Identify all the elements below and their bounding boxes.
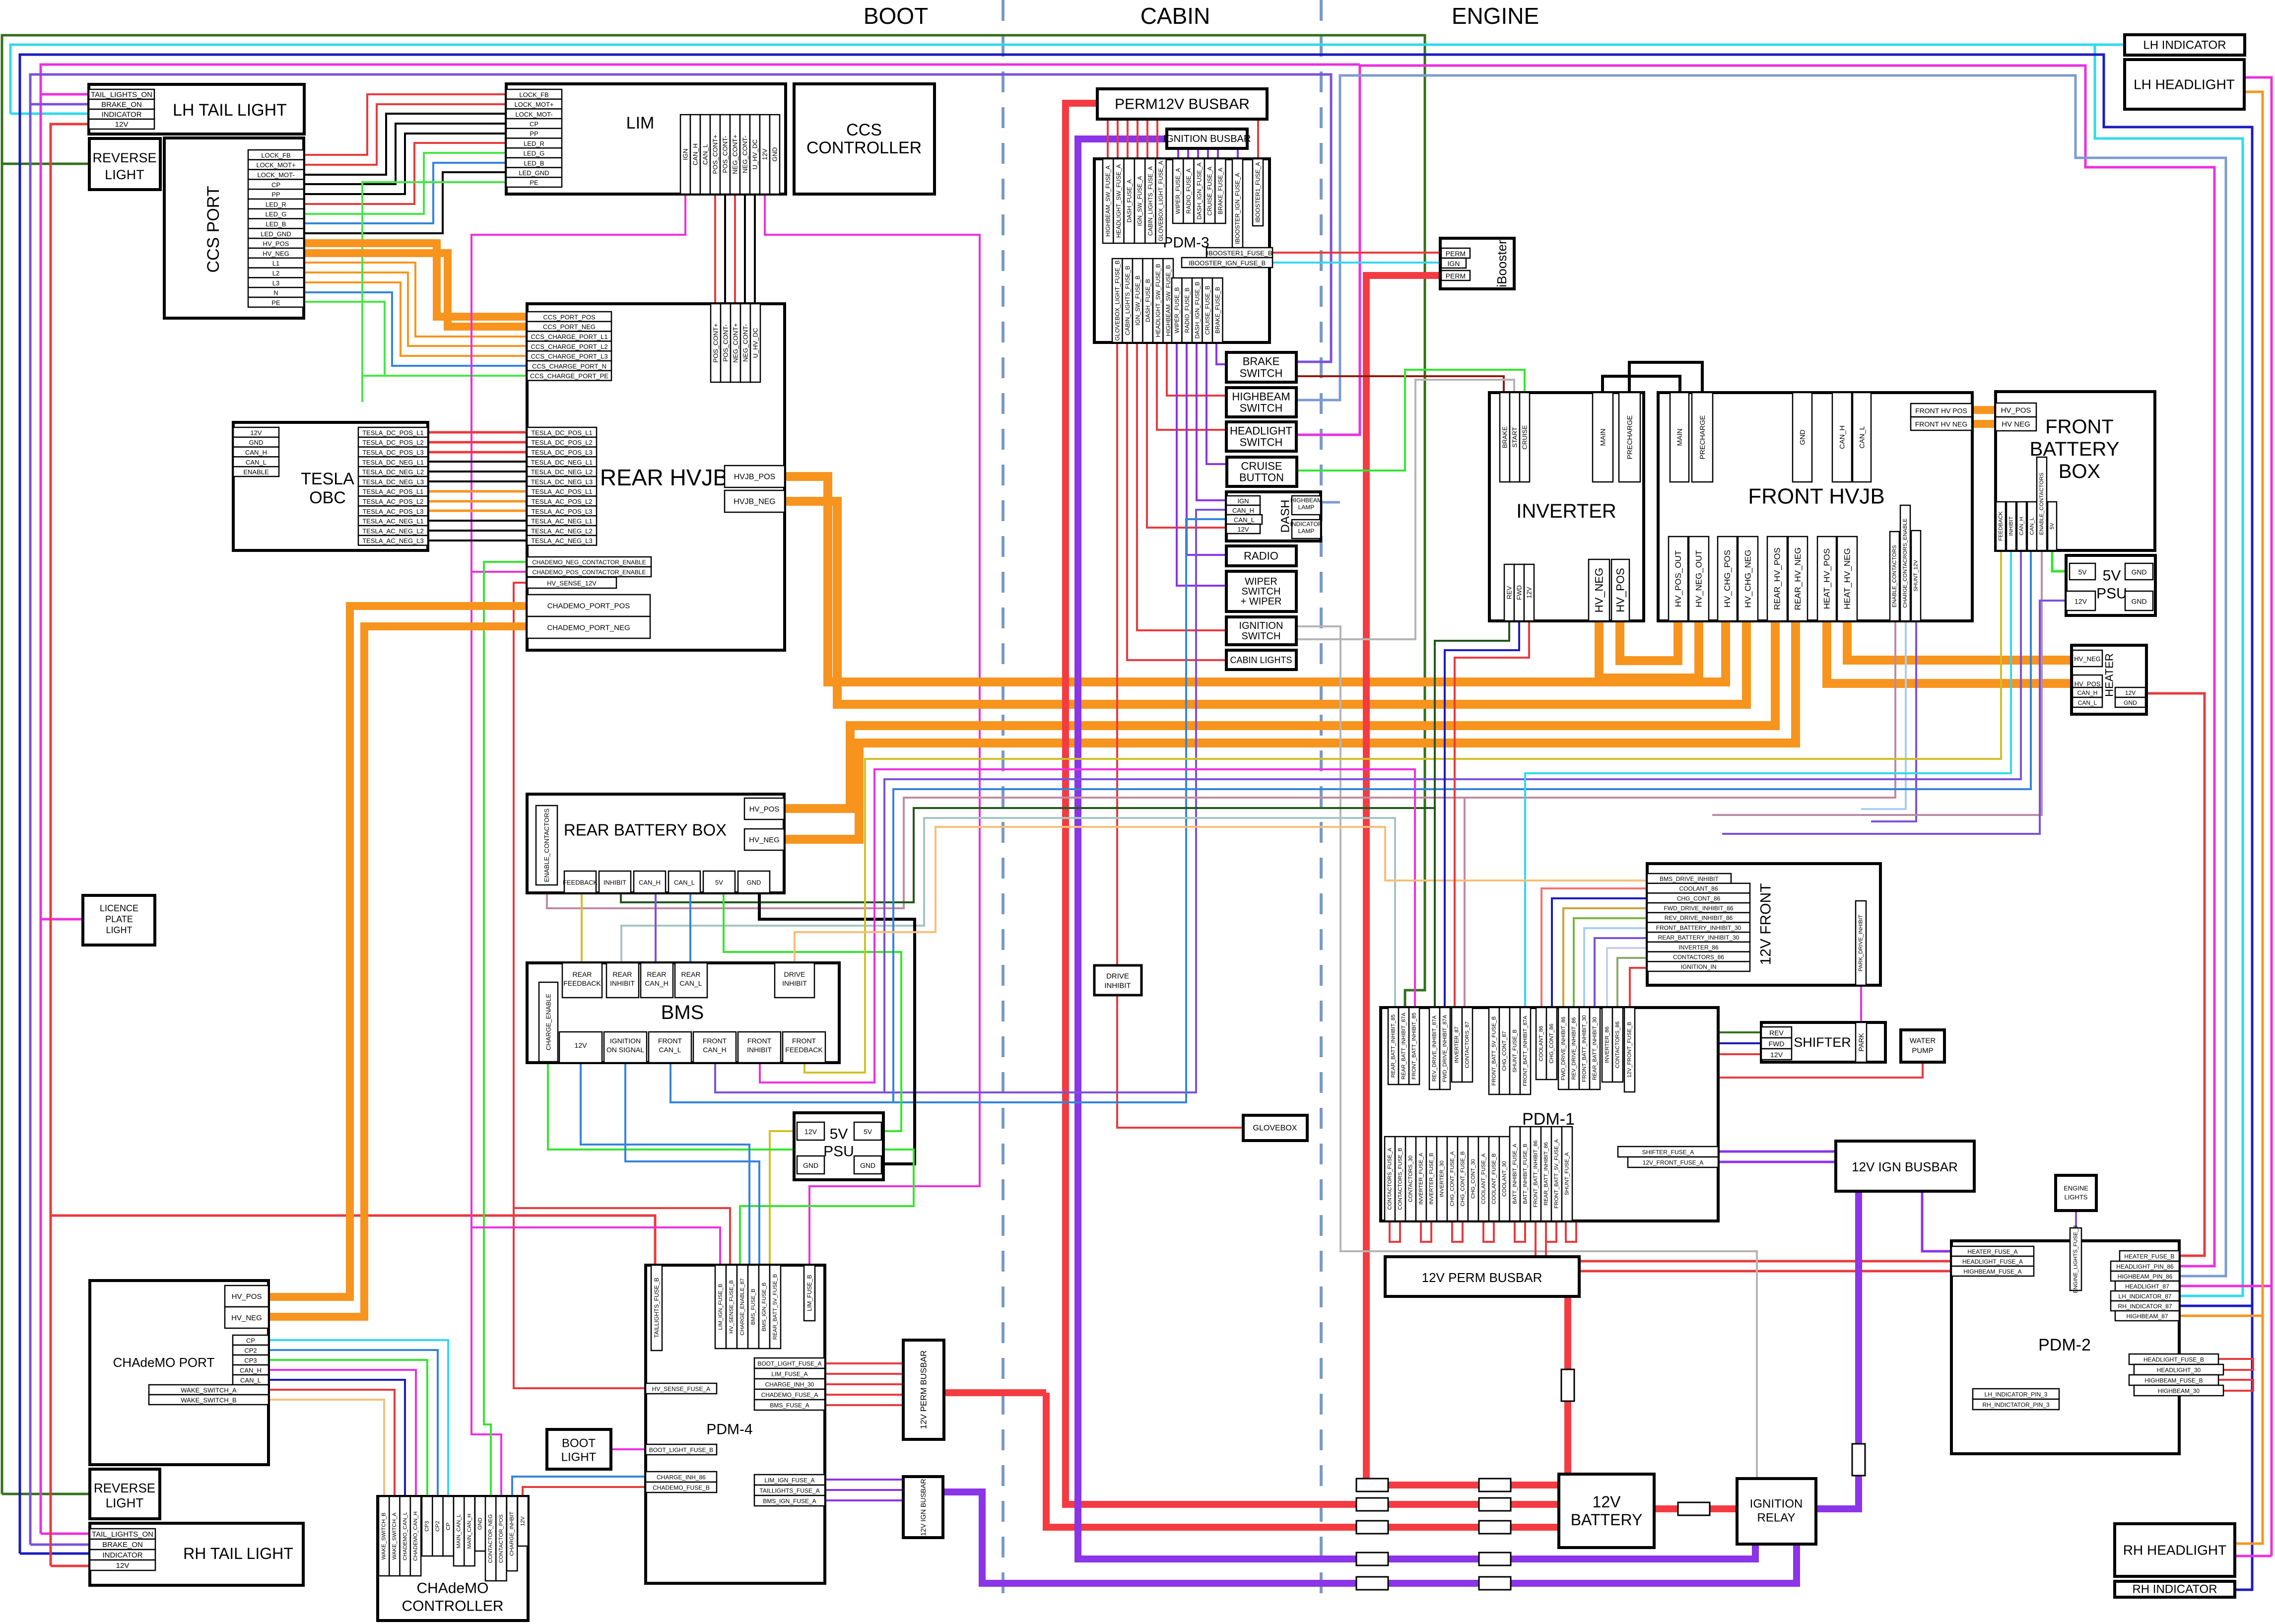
WATER PUMP bbox=[1901, 1030, 1944, 1062]
wire headlight fuse loop red bbox=[2218, 1359, 2253, 1370]
LICENCE PLATE LIGHT bbox=[83, 895, 155, 945]
svg-text:SWITCH: SWITCH bbox=[1242, 631, 1281, 642]
svg-text:FRONT: FRONT bbox=[2045, 416, 2114, 438]
wire inverter REV dark green bbox=[1435, 621, 1509, 1008]
svg-text:BRAKE_FUSE_B: BRAKE_FUSE_B bbox=[1214, 287, 1221, 334]
svg-text:HV_POS: HV_POS bbox=[1614, 568, 1627, 612]
svg-text:INDICATOR: INDICATOR bbox=[102, 1551, 142, 1559]
svg-text:FRONT: FRONT bbox=[703, 1037, 727, 1045]
svg-text:HEATER_FUSE_B: HEATER_FUSE_B bbox=[2124, 1253, 2174, 1260]
svg-text:CCS_PORT_NEG: CCS_PORT_NEG bbox=[543, 323, 596, 331]
svg-text:12V: 12V bbox=[2125, 689, 2136, 696]
svg-text:12V: 12V bbox=[2074, 598, 2087, 606]
wire inverter HV_NEG U orange bbox=[1599, 621, 1699, 678]
svg-text:PP: PP bbox=[271, 191, 280, 199]
svg-text:CCS_CHARGE_PORT_N: CCS_CHARGE_PORT_N bbox=[532, 362, 606, 370]
fuse battery feed 2b bbox=[1479, 1498, 1511, 1511]
wire BMS_DRIVE_INHIBIT peach bbox=[795, 827, 1647, 963]
svg-text:NEG_CONT+: NEG_CONT+ bbox=[732, 323, 739, 363]
svg-text:BOOT: BOOT bbox=[864, 3, 928, 29]
REAR BATTERY BOX bbox=[527, 794, 784, 893]
svg-text:BMS_IGN_FUSE_B: BMS_IGN_FUSE_B bbox=[761, 1283, 767, 1331]
svg-text:HEADLIGHT: HEADLIGHT bbox=[1230, 425, 1292, 437]
svg-text:LOCK_MOT+: LOCK_MOT+ bbox=[514, 101, 553, 108]
svg-text:ENABLE: ENABLE bbox=[243, 469, 269, 476]
wire cruise green to inverter bbox=[1297, 370, 1525, 471]
wire charge inh 30 red bbox=[825, 1383, 903, 1385]
wire CCS_PORT_POS thick orange bbox=[304, 243, 527, 317]
svg-text:LED_GND: LED_GND bbox=[261, 230, 291, 238]
12V FRONT bbox=[1647, 864, 1880, 985]
svg-text:BMS_IGN_FUSE_A: BMS_IGN_FUSE_A bbox=[763, 1498, 816, 1505]
svg-text:NEG_CONT-: NEG_CONT- bbox=[741, 135, 749, 173]
wire perm busbar to PDM-3 fuse 1 bbox=[1117, 119, 1119, 163]
wire IGN_SW_FUSE_B red bbox=[1137, 342, 1226, 630]
svg-text:INVERTER_FUSE_A: INVERTER_FUSE_A bbox=[1418, 1152, 1424, 1205]
wire CRUISE_FUSE_B purple bbox=[1206, 342, 1226, 464]
svg-text:LOCK_FB: LOCK_FB bbox=[261, 151, 290, 159]
svg-text:CHADEMO_PORT_NEG: CHADEMO_PORT_NEG bbox=[547, 624, 630, 632]
wire DASH_IGN_FUSE_B purple bbox=[1197, 342, 1226, 500]
svg-text:LOCK_FB: LOCK_FB bbox=[519, 91, 548, 98]
svg-text:FRONT: FRONT bbox=[747, 1037, 772, 1045]
HEATER bbox=[2072, 645, 2146, 714]
svg-text:TESLA_DC_POS_L2: TESLA_DC_POS_L2 bbox=[531, 439, 593, 446]
svg-text:REV_DRIVE_INHIBIT_86: REV_DRIVE_INHIBIT_86 bbox=[1665, 915, 1733, 922]
svg-text:TESLA_AC_NEG_L3: TESLA_AC_NEG_L3 bbox=[531, 537, 593, 544]
wire inverter FWD navy bbox=[1445, 621, 1519, 1008]
wire rear FEEDBACK yellow bbox=[581, 893, 583, 963]
svg-text:CAN_H: CAN_H bbox=[240, 1367, 262, 1374]
svg-text:INVERTER_86: INVERTER_86 bbox=[1678, 944, 1719, 951]
svg-text:PERM12V BUSBAR: PERM12V BUSBAR bbox=[1115, 96, 1250, 113]
wire ignition switch gray 2 to inverter START bbox=[1296, 380, 1514, 639]
svg-text:INHIBIT: INHIBIT bbox=[1104, 982, 1131, 990]
iBooster bbox=[1440, 238, 1514, 289]
wire highbeam fuse loop red bbox=[2218, 1380, 2253, 1391]
svg-text:CAN_L: CAN_L bbox=[246, 459, 267, 466]
svg-text:LED_G: LED_G bbox=[524, 150, 545, 157]
svg-text:CHG_CONT_86: CHG_CONT_86 bbox=[1677, 895, 1721, 902]
svg-text:5V: 5V bbox=[864, 1128, 872, 1136]
wire FRONT CAN_L blue bbox=[893, 550, 2031, 1102]
wire CCS-LIM 6 bbox=[304, 153, 506, 214]
svg-text:CHADEMO_FUSE_A: CHADEMO_FUSE_A bbox=[761, 1392, 818, 1399]
fuse busbar-battery vertical bbox=[1561, 1369, 1574, 1401]
wire FRONT FEEDBACK yellow bbox=[804, 550, 2001, 1073]
wire LIM PE drop green bbox=[361, 182, 363, 402]
svg-text:CHARGE_INH_86: CHARGE_INH_86 bbox=[657, 1474, 706, 1481]
svg-text:BOOT: BOOT bbox=[562, 1437, 596, 1450]
svg-text:CAN_H: CAN_H bbox=[645, 979, 668, 987]
wire FRONT CAN_H violet bbox=[884, 550, 2021, 1092]
svg-text:REAR: REAR bbox=[573, 970, 592, 978]
separator dashed BOOT/CABIN bbox=[1002, 0, 1004, 1598]
svg-text:BUTTON: BUTTON bbox=[1239, 472, 1284, 484]
CCS PORT bbox=[164, 138, 304, 318]
svg-text:TESLA_DC_NEG_L1: TESLA_DC_NEG_L1 bbox=[362, 459, 424, 466]
wire CHARGE_CONTACTORS_ENABLE lblue drop bbox=[1861, 621, 1906, 809]
svg-text:IBOOSTER_IGN_FUSE_A: IBOOSTER_IGN_FUSE_A bbox=[1234, 173, 1241, 244]
svg-text:BMS_FUSE_A: BMS_FUSE_A bbox=[770, 1402, 809, 1409]
svg-text:HIGHBEAM_87: HIGHBEAM_87 bbox=[2126, 1313, 2168, 1320]
svg-text:REAR_BATT_INHIBIT_85: REAR_BATT_INHIBIT_85 bbox=[1391, 1015, 1397, 1078]
svg-text:RH HEADLIGHT: RH HEADLIGHT bbox=[2123, 1543, 2226, 1558]
12V PERM BUSBAR center bbox=[1385, 1257, 1579, 1296]
svg-text:CAN_L: CAN_L bbox=[702, 144, 709, 165]
svg-text:CONTROLLER: CONTROLLER bbox=[401, 1598, 503, 1615]
svg-text:IGNITION: IGNITION bbox=[610, 1037, 641, 1045]
wire WIPER_FUSE_B purple bbox=[1177, 342, 1226, 586]
svg-text:LED_B: LED_B bbox=[524, 159, 544, 167]
wire shifter fuse A purple bbox=[1718, 1150, 1836, 1153]
svg-text:INVERTER_30: INVERTER_30 bbox=[1439, 1160, 1445, 1197]
wire REV_DRIVE_INHIBIT_86 olive bbox=[1574, 918, 1647, 1008]
svg-text:POS_CONT-: POS_CONT- bbox=[722, 324, 730, 361]
svg-text:IGNITION: IGNITION bbox=[1750, 1497, 1803, 1511]
svg-text:MAIN: MAIN bbox=[1599, 429, 1607, 446]
svg-text:LIM_IGN_FUSE_B: LIM_IGN_FUSE_B bbox=[718, 1284, 724, 1330]
wire front 5V green bbox=[2052, 550, 2070, 571]
wire DASH CAN_H violet bbox=[715, 510, 1226, 1092]
svg-text:CHADEMO_FUSE_B: CHADEMO_FUSE_B bbox=[653, 1485, 710, 1491]
GLOVEBOX bbox=[1243, 1115, 1307, 1141]
svg-text:FEEDBACK: FEEDBACK bbox=[563, 979, 601, 987]
svg-text:GND: GND bbox=[747, 879, 761, 886]
svg-text:CONTACTORS_FUSE_B: CONTACTORS_FUSE_B bbox=[1398, 1148, 1404, 1210]
wire iBooster PERM red bbox=[1272, 252, 1440, 254]
svg-text:CHARGE_CONTACRORS_ENABLE: CHARGE_CONTACRORS_ENABLE bbox=[1902, 518, 1908, 608]
wire shifter 12V red bbox=[1718, 1053, 1761, 1055]
wire CCS-LIM 3 bbox=[304, 124, 506, 184]
wire FRONT HV POS stub orange bbox=[1972, 406, 1996, 414]
wire CCS_CHARGE_PORT_L1 orange bbox=[304, 263, 527, 337]
svg-text:HEAT_HV_POS: HEAT_HV_POS bbox=[1822, 548, 1832, 609]
wire pdm1 bottom fuse loop 0 bbox=[1390, 1221, 1400, 1242]
wire ign busbar to PDM-3 fuse 3 bbox=[1207, 148, 1209, 163]
svg-text:HVJB_NEG: HVJB_NEG bbox=[734, 498, 775, 506]
wire glovebox red bbox=[1120, 1127, 1243, 1129]
wire DASH CAN_L blue bbox=[670, 519, 1226, 1102]
svg-text:IGN_SW_FUSE_A: IGN_SW_FUSE_A bbox=[1137, 176, 1143, 226]
wire U_HV_DC black bbox=[754, 194, 756, 303]
INVERTER bbox=[1489, 393, 1644, 621]
svg-text:REV: REV bbox=[1506, 586, 1513, 599]
wire CHADEMO_NEG_CONTACTOR_ENABLE green bbox=[484, 562, 527, 1496]
5V PSU right bbox=[2066, 555, 2155, 615]
wire CCS-LIM 0 bbox=[304, 94, 506, 155]
fuse battery feed 2a bbox=[1356, 1498, 1388, 1511]
svg-text:HV_POS: HV_POS bbox=[749, 805, 780, 813]
svg-text:LIM_FUSE_A: LIM_FUSE_A bbox=[771, 1371, 807, 1378]
wire INDICATOR cyan into LH tail light bbox=[10, 113, 89, 115]
svg-text:GLOVEBOX_LIGHT_FUSE_B: GLOVEBOX_LIGHT_FUSE_B bbox=[1114, 260, 1121, 340]
wire perm12v feed thick red bbox=[1066, 103, 1559, 1504]
svg-text:IBOOSTER_IGN_FUSE_B: IBOOSTER_IGN_FUSE_B bbox=[1189, 260, 1266, 267]
svg-text:PLATE: PLATE bbox=[105, 914, 133, 924]
svg-text:BATT_INHIBIT_FUSE_B: BATT_INHIBIT_FUSE_B bbox=[1523, 1144, 1529, 1204]
svg-text:12V: 12V bbox=[115, 121, 129, 129]
wire engine lights purple bbox=[2075, 1211, 2077, 1228]
svg-text:GND: GND bbox=[2131, 568, 2146, 576]
svg-text:FWD_DRIVE_INHIBIT_87A: FWD_DRIVE_INHIBIT_87A bbox=[1442, 1015, 1448, 1082]
svg-text:ENABLE_CONTACTORS: ENABLE_CONTACTORS bbox=[543, 809, 550, 882]
svg-text:TAIL_LIGHTS_ON: TAIL_LIGHTS_ON bbox=[92, 1530, 153, 1539]
svg-text:U_HV_DC: U_HV_DC bbox=[751, 139, 759, 170]
svg-text:INHIBIT: INHIBIT bbox=[747, 1046, 772, 1054]
svg-text:PUMP: PUMP bbox=[1912, 1047, 1933, 1055]
wire highbeam fuse A red bbox=[1579, 1270, 1951, 1273]
svg-text:BRAKE_FUSE_A: BRAKE_FUSE_A bbox=[1217, 168, 1224, 214]
svg-text:CONTACTOR_NEG: CONTACTOR_NEG bbox=[488, 1514, 494, 1563]
CABIN LIGHTS bbox=[1226, 650, 1296, 670]
svg-text:HV_SENSE_FUSE_A: HV_SENSE_FUSE_A bbox=[652, 1386, 710, 1393]
svg-text:TESLA_DC_NEG_L2: TESLA_DC_NEG_L2 bbox=[531, 469, 593, 476]
svg-text:SHIFTER_FUSE_A: SHIFTER_FUSE_A bbox=[1642, 1149, 1694, 1156]
svg-text:HV_POS: HV_POS bbox=[232, 1292, 262, 1301]
wire ign busbar to PDM-3 fuse 0 bbox=[1177, 148, 1179, 163]
wire COOLANT_86 salmon bbox=[1541, 888, 1647, 1008]
svg-text:LOCK_MOT-: LOCK_MOT- bbox=[515, 111, 552, 118]
svg-text:COOLANT_86: COOLANT_86 bbox=[1679, 885, 1718, 892]
DRIVE INHIBIT switch bbox=[1094, 965, 1141, 995]
wire HIGHBEAM_SW_FUSE_B red bbox=[1167, 342, 1226, 396]
svg-text:HV_CHG_NEG: HV_CHG_NEG bbox=[1743, 549, 1753, 608]
svg-text:HV_NEG_OUT: HV_NEG_OUT bbox=[1694, 550, 1704, 607]
wire CHAdeMO CAN_L navy bbox=[268, 1380, 405, 1496]
svg-text:DASH_FUSE_A: DASH_FUSE_A bbox=[1126, 180, 1133, 223]
svg-text:INHIBIT: INHIBIT bbox=[603, 879, 626, 886]
wire perm busbar to PDM-3 fuse 5 bbox=[1156, 119, 1158, 163]
wire INVERTER_86 lavender bbox=[1607, 948, 1647, 1008]
wire lim ign fuse A purple bbox=[825, 1479, 903, 1481]
svg-text:CHARGE_INH_30: CHARGE_INH_30 bbox=[765, 1381, 814, 1388]
svg-text:ENGINE_LIGHTS_FUSE_B: ENGINE_LIGHTS_FUSE_B bbox=[2073, 1225, 2079, 1293]
LIM bbox=[506, 84, 786, 194]
svg-text:+ WIPER: + WIPER bbox=[1241, 596, 1282, 607]
wire taillights fuse A purple bbox=[825, 1489, 903, 1491]
svg-text:HV_POS: HV_POS bbox=[2074, 680, 2101, 688]
svg-text:FRONT_BATT_5V_FUSE_A: FRONT_BATT_5V_FUSE_A bbox=[1554, 1139, 1560, 1208]
svg-text:TAILLIGHTS_FUSE_B: TAILLIGHTS_FUSE_B bbox=[653, 1278, 660, 1338]
FRONT BATTERY BOX bbox=[1996, 392, 2155, 550]
svg-text:HEADLIGHT_FUSE_A: HEADLIGHT_FUSE_A bbox=[1962, 1258, 2023, 1265]
svg-text:HEATER: HEATER bbox=[2103, 653, 2116, 697]
wire TESLA 1 bbox=[428, 441, 527, 444]
svg-text:CAN_L: CAN_L bbox=[1858, 426, 1866, 448]
wire CCS_CHARGE_PORT_PE green bbox=[304, 302, 527, 376]
svg-text:HIGHBEAM_30: HIGHBEAM_30 bbox=[2158, 1388, 2200, 1395]
svg-text:IGN: IGN bbox=[682, 148, 689, 160]
IGNITION BUSBAR bbox=[1163, 129, 1251, 148]
svg-text:INDICATOR: INDICATOR bbox=[1290, 521, 1323, 528]
WIPER SWITCH + WIPER bbox=[1226, 571, 1296, 611]
svg-text:LIM_IGN_FUSE_A: LIM_IGN_FUSE_A bbox=[764, 1477, 814, 1484]
svg-text:TESLA_AC_NEG_L1: TESLA_AC_NEG_L1 bbox=[362, 518, 424, 525]
svg-text:CHG_CONT_86: CHG_CONT_86 bbox=[1549, 1023, 1555, 1063]
svg-text:5V: 5V bbox=[830, 1126, 848, 1143]
svg-text:FWD_DRIVE_INHIBIT_86: FWD_DRIVE_INHIBIT_86 bbox=[1561, 1016, 1567, 1080]
svg-text:12V IGN BUSBAR: 12V IGN BUSBAR bbox=[919, 1479, 927, 1536]
wire battery to ignition relay thick red bbox=[1654, 1505, 1737, 1512]
svg-text:12V: 12V bbox=[1526, 587, 1533, 598]
svg-text:CHADEMO_NEG_CONTACTOR_ENABLE: CHADEMO_NEG_CONTACTOR_ENABLE bbox=[532, 559, 646, 566]
svg-text:WIPER_FUSE_B: WIPER_FUSE_B bbox=[1173, 287, 1180, 334]
fuse battery feed 1b bbox=[1479, 1479, 1511, 1491]
fuse ign busbar vertical bbox=[1852, 1444, 1865, 1476]
svg-text:IGN: IGN bbox=[1448, 260, 1460, 268]
wire ENABLE_CONTACTORS mauve front hvjb bbox=[1465, 621, 1895, 798]
svg-text:NEG_CONT-: NEG_CONT- bbox=[742, 324, 749, 362]
fuse purple 1b bbox=[1479, 1553, 1511, 1565]
svg-text:REAR_BATT_5V_FUSE_B: REAR_BATT_5V_FUSE_B bbox=[772, 1274, 778, 1340]
svg-text:HEADLIGHT_30: HEADLIGHT_30 bbox=[2157, 1367, 2201, 1374]
wire HEADLIGHT_87 magenta to RH headlight bbox=[2235, 1555, 2272, 1557]
svg-text:FWD_DRIVE_INHIBIT_86: FWD_DRIVE_INHIBIT_86 bbox=[1664, 905, 1733, 912]
wire HEADLIGHT_87 magenta vertical lower bbox=[2271, 1286, 2273, 1556]
svg-text:HEADLIGHT_87: HEADLIGHT_87 bbox=[2125, 1283, 2169, 1290]
svg-text:MAIN: MAIN bbox=[1675, 429, 1683, 446]
svg-text:BRAKE_ON: BRAKE_ON bbox=[101, 101, 142, 109]
svg-text:SHUNT_FUSE_B: SHUNT_FUSE_B bbox=[1512, 1029, 1518, 1073]
5V PSU mid bbox=[794, 1113, 883, 1180]
svg-text:BMS_DRIVE_INHIBIT: BMS_DRIVE_INHIBIT bbox=[1660, 876, 1719, 882]
svg-text:START: START bbox=[1511, 427, 1519, 447]
wire TESLA 5 bbox=[428, 480, 527, 482]
svg-text:CAN_H: CAN_H bbox=[639, 879, 661, 886]
svg-text:CHAdeMO PORT: CHAdeMO PORT bbox=[113, 1355, 215, 1370]
svg-text:INVERTER_87: INVERTER_87 bbox=[1454, 1026, 1460, 1063]
wire TESLA 3 bbox=[428, 461, 527, 463]
svg-text:CAN_H: CAN_H bbox=[245, 449, 267, 456]
ENGINE LIGHTS bbox=[2056, 1175, 2096, 1211]
wire RH_INDICATOR navy into RH tail light bbox=[20, 1553, 90, 1555]
svg-text:ENGINE: ENGINE bbox=[1452, 3, 1539, 29]
svg-text:CONTACTORS_87: CONTACTORS_87 bbox=[1465, 1021, 1471, 1068]
svg-text:CONTACTORS_86: CONTACTORS_86 bbox=[1615, 1021, 1621, 1068]
svg-text:HIGHBEAM_FUSE_A: HIGHBEAM_FUSE_A bbox=[1963, 1268, 2021, 1275]
svg-text:HV_NEG: HV_NEG bbox=[231, 1314, 262, 1322]
wire shifter FWD navy bbox=[1718, 1042, 1761, 1044]
wire CABIN_LIGHTS_FUSE_B red bbox=[1127, 342, 1226, 660]
svg-text:BRAKE: BRAKE bbox=[1243, 355, 1280, 368]
wire rear CAN_L blue bbox=[689, 893, 691, 963]
wire taillight 12V branch to PDM-4 taillights fuse bbox=[51, 1216, 655, 1267]
wire TESLA 6 bbox=[428, 490, 527, 493]
wire IGNITION_IN red bbox=[1630, 968, 1647, 1008]
svg-text:HEAT_HV_NEG: HEAT_HV_NEG bbox=[1843, 548, 1852, 609]
svg-text:LAMP: LAMP bbox=[1298, 504, 1315, 511]
wire RADIO_FUSE_B purple bbox=[1187, 342, 1226, 555]
wire REVERSE branch to bottom reverse light bbox=[2, 1493, 90, 1495]
zone label CABIN bbox=[1140, 3, 1210, 29]
wire TAIL_LIGHTS_ON into LH tail light bbox=[41, 93, 89, 96]
svg-text:12V: 12V bbox=[761, 148, 769, 160]
svg-text:GLOVEBOX: GLOVEBOX bbox=[1253, 1124, 1297, 1133]
svg-text:LIM: LIM bbox=[626, 114, 655, 133]
BMS bbox=[527, 963, 839, 1063]
svg-text:CAN_L: CAN_L bbox=[2029, 517, 2035, 535]
svg-text:HV NEG: HV NEG bbox=[2002, 420, 2030, 429]
svg-text:ON SIGNAL: ON SIGNAL bbox=[606, 1046, 644, 1054]
svg-text:CCS_PORT_POS: CCS_PORT_POS bbox=[543, 313, 596, 321]
wire water pump red bbox=[1922, 1062, 1924, 1078]
svg-text:HEADLIGHT_SW_FUSE_A: HEADLIGHT_SW_FUSE_A bbox=[1115, 164, 1122, 238]
wire inverter HV_POS U orange bbox=[1620, 621, 1678, 661]
BOOT LIGHT bbox=[547, 1429, 611, 1469]
svg-text:LIGHT: LIGHT bbox=[561, 1451, 597, 1464]
svg-text:TESLA_AC_POS_L2: TESLA_AC_POS_L2 bbox=[532, 498, 593, 505]
svg-text:INHIBIT: INHIBIT bbox=[782, 979, 807, 987]
wire perm busbar to IBOOSTER1 fuse bbox=[1257, 119, 1259, 163]
svg-text:WAKE_SWITCH_A: WAKE_SWITCH_A bbox=[392, 1512, 398, 1560]
PDM-2 bbox=[1951, 1225, 2223, 1454]
svg-text:DASH: DASH bbox=[1279, 500, 1292, 533]
svg-text:HV_POS_OUT: HV_POS_OUT bbox=[1673, 550, 1683, 607]
wire CONTACTOR_POS magenta down bbox=[471, 572, 501, 1496]
svg-text:SWITCH: SWITCH bbox=[1240, 402, 1283, 414]
svg-text:LOCK_MOT-: LOCK_MOT- bbox=[257, 171, 294, 179]
wire pdm1 bottom fuse loop 1 bbox=[1421, 1221, 1431, 1242]
wire CCS-LIM 7 bbox=[304, 163, 506, 223]
svg-text:CAN_L: CAN_L bbox=[679, 979, 702, 987]
svg-text:REV: REV bbox=[1769, 1029, 1784, 1037]
svg-text:CAN_L: CAN_L bbox=[659, 1046, 681, 1054]
svg-text:HVJB_POS: HVJB_POS bbox=[734, 473, 776, 481]
svg-text:5V: 5V bbox=[2049, 523, 2055, 530]
wire rear CAN_H violet bbox=[655, 893, 657, 963]
svg-text:RADIO: RADIO bbox=[1244, 550, 1278, 562]
svg-text:HIGHBEAM_SW_FUSE_A: HIGHBEAM_SW_FUSE_A bbox=[1105, 165, 1112, 236]
wire CHAdeMO CP3 green bbox=[268, 1360, 427, 1496]
12V IGN BUSBAR left bbox=[903, 1477, 943, 1538]
svg-text:CRUISE_FUSE_B: CRUISE_FUSE_B bbox=[1204, 286, 1211, 335]
svg-text:IGNITION: IGNITION bbox=[1239, 620, 1283, 631]
wire NEG_CONT- black bbox=[744, 194, 746, 303]
svg-text:GLOVEBOX_LIGHT_FUSE_A: GLOVEBOX_LIGHT_FUSE_A bbox=[1157, 161, 1164, 241]
svg-text:GND: GND bbox=[860, 1161, 875, 1169]
svg-text:TESLA_DC_NEG_L3: TESLA_DC_NEG_L3 bbox=[531, 478, 593, 485]
svg-text:12V PERM BUSBAR: 12V PERM BUSBAR bbox=[1422, 1270, 1542, 1285]
svg-text:CRUISE: CRUISE bbox=[1241, 460, 1282, 473]
svg-text:WAKE_SWITCH_B: WAKE_SWITCH_B bbox=[181, 1397, 236, 1404]
wire BMS 12V blue bbox=[581, 1063, 749, 1267]
wire REAR_HV_NEG band4 thick orange bbox=[784, 621, 1796, 839]
svg-text:INHIBIT: INHIBIT bbox=[2008, 516, 2014, 536]
svg-text:5V: 5V bbox=[715, 879, 723, 886]
svg-text:CRUISE_FUSE_A: CRUISE_FUSE_A bbox=[1206, 167, 1213, 216]
svg-text:HV_NEG: HV_NEG bbox=[749, 836, 780, 844]
svg-text:FRONT HV NEG: FRONT HV NEG bbox=[1915, 420, 1968, 428]
REVERSE LIGHT bottom bbox=[90, 1469, 160, 1519]
svg-text:PE: PE bbox=[530, 179, 538, 187]
wire inverter PRECHARGE black U bbox=[1629, 362, 1702, 393]
svg-text:CP3: CP3 bbox=[244, 1357, 257, 1364]
svg-text:HEADLIGHT_PIN_86: HEADLIGHT_PIN_86 bbox=[2116, 1263, 2174, 1270]
IGNITION RELAY bbox=[1737, 1479, 1816, 1544]
svg-text:TESLA_AC_NEG_L2: TESLA_AC_NEG_L2 bbox=[362, 527, 424, 535]
svg-text:CHARGE_INHBIT: CHARGE_INHBIT bbox=[509, 1511, 515, 1556]
wire ign busbar to PDM-3 fuse 4 bbox=[1217, 148, 1219, 163]
svg-text:5V: 5V bbox=[2078, 568, 2087, 576]
svg-text:TESLA_AC_NEG_L1: TESLA_AC_NEG_L1 bbox=[531, 518, 593, 525]
wire CCS-LIM 5 bbox=[304, 143, 506, 204]
wire boot light fuse A red bbox=[825, 1362, 903, 1364]
RADIO bbox=[1226, 546, 1296, 566]
fuse battery feed 3b bbox=[1479, 1521, 1511, 1534]
wire iBooster perm thick red bbox=[1366, 275, 1559, 1485]
svg-text:REVERSE: REVERSE bbox=[94, 1481, 155, 1495]
